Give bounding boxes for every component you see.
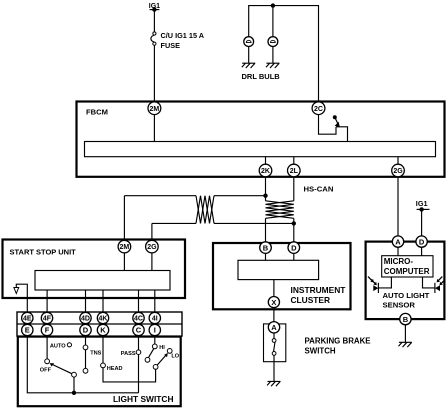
- wire 2M to bus: [123, 253, 125, 271]
- svg-text:SWITCH: SWITCH: [305, 347, 336, 356]
- svg-text:X: X: [271, 298, 276, 307]
- svg-text:HS-CAN: HS-CAN: [304, 185, 334, 194]
- pin 4C: [133, 312, 144, 323]
- wire bus to 2L: [293, 157, 295, 165]
- pin E: [22, 324, 33, 335]
- pin D: [80, 324, 91, 335]
- connector B: [260, 242, 272, 254]
- wire bus to X: [273, 280, 275, 297]
- wire CAN-H horizontal: [124, 195, 265, 197]
- junction CAN-L: [292, 221, 296, 225]
- pin 4F: [41, 312, 52, 323]
- svg-text:START STOP UNIT: START STOP UNIT: [10, 248, 77, 257]
- power source IG1 (sensor): [416, 199, 430, 212]
- ground arrow (SSU internal): [14, 284, 27, 293]
- bus bar SSU: [35, 271, 170, 291]
- connector 2C: [312, 102, 325, 115]
- wire bus to pin F: [46, 290, 48, 312]
- light arrows right: [437, 277, 446, 286]
- twisted pair (right): [266, 201, 294, 219]
- wire A to microcomputer: [397, 247, 399, 255]
- wire X to parking brake switch: [273, 309, 275, 321]
- wire pin D to TNS: [85, 336, 87, 345]
- wire pin C through PASS to bottom: [138, 336, 140, 393]
- connector 2K: [259, 164, 272, 177]
- wire IG1 to fuse: [153, 10, 155, 32]
- contact TNS bottom: [83, 368, 88, 373]
- internal switch from 2C: [319, 115, 348, 142]
- pin C: [133, 324, 144, 335]
- connector A (parking): [268, 322, 279, 333]
- connector 2L: [288, 164, 301, 177]
- junction CAN-H: [263, 194, 267, 198]
- wire CAN-L down to SSU 2G: [151, 223, 153, 240]
- connector 2M (SSU): [118, 240, 131, 253]
- box AUTO LIGHT SENSOR: [366, 242, 445, 320]
- box MICRO-COMPUTER: [382, 256, 433, 277]
- wire bus to pin I: [154, 290, 156, 312]
- wire CAN-L horizontal: [152, 222, 294, 224]
- wire HEAD to LO lever: [103, 368, 156, 382]
- connector 2G (SSU): [146, 240, 159, 253]
- wire twist through junction to D: [293, 218, 295, 242]
- pin I: [149, 324, 160, 335]
- wire TNS: [85, 350, 87, 369]
- svg-text:LIGHT SWITCH: LIGHT SWITCH: [113, 394, 173, 404]
- svg-text:A: A: [271, 323, 277, 332]
- wire D to bus: [293, 253, 295, 260]
- junction (DRL feed): [271, 3, 275, 7]
- wire bus to pin D: [85, 290, 87, 312]
- svg-text:C/U IG1 15 A: C/U IG1 15 A: [161, 31, 205, 40]
- wire 2K down to CAN-H junction: [265, 177, 267, 196]
- wire CAN-H down to SSU 2M: [123, 196, 125, 241]
- svg-text:FUSE: FUSE: [161, 41, 181, 50]
- wire bus to pin K: [102, 290, 104, 312]
- svg-text:INSTRUMENT: INSTRUMENT: [291, 285, 347, 295]
- wire B to ground: [404, 325, 406, 343]
- contact PASS: [136, 350, 141, 355]
- svg-text:C: C: [136, 326, 142, 335]
- wire twist to B: [265, 218, 267, 242]
- photodiode right: [423, 277, 441, 293]
- wire 2L down to twist: [293, 177, 295, 201]
- svg-text:B: B: [403, 315, 409, 324]
- wire 2G to sensor A: [397, 177, 399, 236]
- lever LO switch: [153, 353, 168, 369]
- svg-text:2C: 2C: [314, 106, 323, 113]
- wire pin K to HEAD: [102, 336, 104, 363]
- connector X: [268, 297, 279, 308]
- svg-text:PASS: PASS: [121, 351, 136, 357]
- svg-text:HI: HI: [159, 345, 165, 351]
- wire pin I to HI: [154, 336, 156, 344]
- svg-text:COMPUTER: COMPUTER: [384, 267, 430, 276]
- svg-text:2G: 2G: [147, 244, 157, 251]
- svg-text:HEAD: HEAD: [107, 366, 123, 372]
- svg-text:4K: 4K: [99, 316, 108, 323]
- svg-text:TNS: TNS: [90, 351, 101, 357]
- photodiode left: [373, 277, 391, 293]
- contact HEAD: [101, 363, 106, 368]
- lever HI switch: [145, 349, 154, 363]
- svg-text:4D: 4D: [81, 316, 90, 323]
- junction (OFF common): [72, 391, 76, 395]
- fuse C/U IG1 15 A: [151, 31, 205, 50]
- svg-text:FBCM: FBCM: [86, 108, 108, 117]
- contact OFF: [45, 359, 50, 364]
- svg-text:K: K: [100, 326, 106, 335]
- ground (right DRL): [266, 63, 279, 68]
- svg-text:DRL BULB: DRL BULB: [242, 72, 281, 81]
- pin 4D: [80, 312, 91, 323]
- svg-text:LO: LO: [171, 354, 179, 360]
- svg-text:D: D: [291, 243, 297, 252]
- svg-text:4I: 4I: [152, 316, 158, 323]
- wire pin F to OFF contact: [46, 336, 48, 359]
- light arrows left: [368, 277, 377, 286]
- wire junction down to twist: [265, 196, 267, 201]
- svg-text:2M: 2M: [120, 244, 130, 251]
- svg-text:SENSOR: SENSOR: [383, 300, 416, 309]
- svg-text:F: F: [45, 326, 50, 335]
- ground (left DRL): [242, 63, 255, 68]
- connector B (sensor): [400, 313, 411, 324]
- bus bar FBCM: [85, 142, 436, 157]
- connector 2M: [148, 102, 161, 115]
- lever OFF switch: [50, 363, 77, 393]
- wire B to bus: [265, 253, 267, 260]
- ground (sensor): [399, 342, 412, 347]
- connector A (sensor): [392, 236, 403, 247]
- contact TNS top: [83, 345, 88, 350]
- svg-text:B: B: [263, 243, 269, 252]
- pin K: [97, 324, 108, 335]
- box START STOP UNIT: [3, 240, 186, 299]
- svg-text:4E: 4E: [23, 316, 32, 323]
- svg-text:2M: 2M: [150, 106, 160, 113]
- wire D to microcomputer: [421, 247, 423, 255]
- svg-text:D: D: [83, 326, 89, 335]
- bus bar cluster: [238, 260, 319, 279]
- pin 4I: [149, 312, 160, 323]
- ground (parking brake): [267, 381, 280, 386]
- wire right bulb to ground: [272, 47, 274, 64]
- contact AUTO: [67, 343, 71, 347]
- svg-text:E: E: [25, 326, 30, 335]
- switch contacts (parking brake): [272, 333, 276, 381]
- pin 4E: [22, 312, 33, 323]
- pin F: [41, 324, 52, 335]
- contact HI: [152, 344, 157, 349]
- wire junction to right bulb: [272, 6, 274, 37]
- svg-text:4F: 4F: [43, 316, 52, 323]
- wire DRL feed from FBCM 2C: [249, 6, 319, 102]
- wire bus to pin C: [138, 290, 140, 312]
- svg-text:MICRO-: MICRO-: [384, 257, 414, 266]
- svg-text:A: A: [395, 237, 401, 246]
- svg-text:PARKING BRAKE: PARKING BRAKE: [305, 337, 371, 346]
- wire left bulb to ground: [248, 47, 250, 64]
- wire IG1 to sensor D: [421, 209, 423, 236]
- wire 2G to bus: [151, 253, 153, 271]
- svg-text:D: D: [419, 237, 425, 246]
- contact LO: [167, 349, 172, 354]
- box LIGHT SWITCH: [18, 337, 181, 407]
- connector D: [288, 242, 300, 254]
- svg-text:4C: 4C: [134, 316, 143, 323]
- wire bus to 2K: [265, 157, 267, 165]
- svg-text:I: I: [154, 326, 156, 335]
- wire bus to 2G: [397, 157, 399, 165]
- bulb DRL left: [244, 37, 254, 47]
- svg-text:AUTO LIGHT: AUTO LIGHT: [383, 291, 430, 300]
- wire pin E down and along bottom: [27, 336, 138, 393]
- bulb DRL right: [268, 37, 278, 47]
- wire fuse to FBCM 2M: [153, 45, 155, 102]
- connector 2G: [392, 164, 405, 177]
- svg-text:IG1: IG1: [416, 199, 428, 208]
- twisted pair (left): [196, 196, 214, 224]
- svg-text:AUTO: AUTO: [50, 343, 66, 349]
- svg-text:2G: 2G: [393, 168, 403, 175]
- svg-text:2K: 2K: [261, 168, 270, 175]
- svg-text:OFF: OFF: [40, 368, 52, 374]
- svg-text:CLUSTER: CLUSTER: [291, 295, 331, 305]
- connector strip: [17, 312, 182, 336]
- box FBCM: [77, 102, 445, 177]
- power source IG1 (top): [149, 3, 160, 12]
- connector D (sensor): [416, 236, 427, 247]
- wire 2M to bus: [153, 115, 155, 142]
- box parking brake switch: [264, 324, 286, 362]
- wire arrow line to pin E: [26, 284, 29, 312]
- box INSTRUMENT CLUSTER: [213, 243, 351, 309]
- pin 4K: [97, 312, 108, 323]
- svg-text:2L: 2L: [290, 168, 299, 175]
- label PARKING BRAKE SWITCH: [305, 337, 371, 356]
